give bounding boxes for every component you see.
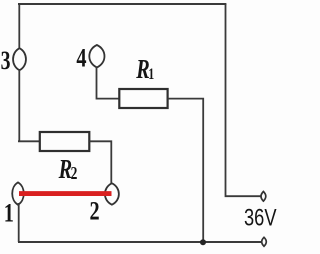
label 2 xyxy=(90,197,100,226)
wire top xyxy=(18,3,226,5)
label 1 xyxy=(4,199,14,228)
wire R1 right lead xyxy=(168,99,204,242)
wire R2 left lead xyxy=(18,140,40,142)
label 3 xyxy=(1,45,11,74)
svg-text:R2: R2 xyxy=(58,156,78,185)
wire bottom rail xyxy=(18,241,262,243)
wire terminal 4 lead to R1 xyxy=(97,67,120,99)
label R2 xyxy=(58,156,78,185)
terminal 4 xyxy=(89,45,104,67)
svg-text:1: 1 xyxy=(4,199,14,228)
wire right rail xyxy=(226,4,261,196)
battery terminal - (36V bottom) xyxy=(262,237,267,246)
label R1 xyxy=(135,55,154,84)
resistor R1 xyxy=(119,89,167,108)
red jumper wire between terminal 1 and terminal 2 xyxy=(19,191,112,196)
wire left lower (terminal 3 down to R2 lead) xyxy=(18,70,20,142)
wire R2 right lead xyxy=(89,141,111,184)
terminal 3 xyxy=(13,48,26,70)
junction dot xyxy=(200,239,206,245)
svg-text:R1: R1 xyxy=(135,55,154,84)
label 4 xyxy=(76,44,86,73)
svg-text:3: 3 xyxy=(1,45,11,74)
battery terminal + (36V top) xyxy=(261,192,266,202)
svg-text:36V: 36V xyxy=(244,205,277,232)
wire terminal 1 down xyxy=(18,203,20,242)
terminal 2 xyxy=(105,183,119,204)
wire left upper (top rail to terminal 3) xyxy=(18,4,20,49)
svg-text:4: 4 xyxy=(76,44,86,73)
terminal 1 xyxy=(12,182,24,204)
svg-text:2: 2 xyxy=(90,197,100,226)
resistor R2 xyxy=(40,132,90,151)
